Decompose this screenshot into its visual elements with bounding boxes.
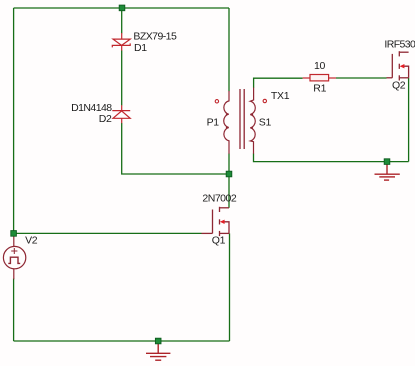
wire left rail upper	[13, 8, 15, 236]
svg-text:TX1: TX1	[271, 90, 290, 102]
svg-text:2N7002: 2N7002	[202, 193, 236, 205]
arrow head Q1	[220, 220, 225, 224]
transformer core lines	[240, 89, 244, 149]
voltage source V2	[3, 235, 25, 280]
gate bar	[212, 210, 214, 234]
svg-text:V2: V2	[25, 235, 38, 247]
transformer TX1 primary winding P1	[224, 91, 229, 154]
wire secondary bottom	[254, 154, 409, 162]
drain lead	[220, 207, 230, 209]
wire diode chain upper	[121, 8, 123, 33]
svg-text:Q2: Q2	[392, 80, 406, 92]
wire R1 to Q2 gate	[336, 77, 387, 79]
svg-text:S1: S1	[259, 116, 272, 128]
svg-text:D2: D2	[99, 113, 112, 125]
wire D2 down and right to junction	[122, 123, 229, 174]
V2 pulse waveform	[8, 257, 20, 263]
junction dot V2 / gate net	[11, 231, 17, 237]
diode D2	[112, 105, 130, 123]
middle dash	[219, 219, 221, 224]
arrow lead + body line	[404, 66, 409, 78]
bottom dash (source side)	[219, 231, 221, 236]
wire Q1 source to bottom	[229, 233, 231, 341]
wire junction to Q1 drain	[228, 154, 230, 208]
svg-text:D1: D1	[134, 42, 147, 54]
transformer secondary winding S1	[250, 88, 255, 154]
wire top horizontal	[14, 7, 229, 9]
bottom dash (source side)	[398, 75, 400, 80]
svg-text:Q1: Q1	[212, 234, 226, 246]
resistor R1	[303, 75, 336, 81]
svg-text:IRF530: IRF530	[384, 38, 415, 50]
arrow lead + body line	[224, 222, 229, 234]
gate bar	[391, 54, 393, 78]
svg-text:10: 10	[314, 60, 325, 72]
drain lead stub	[399, 51, 408, 53]
zener diode D1	[112, 33, 130, 51]
gate lead	[387, 77, 393, 79]
primary polarity dot	[215, 100, 218, 103]
wire gate net V2 to Q1	[14, 232, 202, 234]
wire secondary top to R1	[254, 78, 303, 88]
wire left rail lower	[13, 279, 15, 342]
secondary polarity dot	[263, 99, 266, 102]
ground right	[375, 163, 400, 180]
junction dot right ground	[384, 159, 390, 165]
wire between D1 and D2	[121, 50, 123, 105]
svg-text:R1: R1	[313, 83, 326, 95]
junction dot bottom ground	[155, 338, 161, 344]
source lead	[399, 77, 408, 79]
gate lead	[202, 232, 213, 234]
wire top corner down to primary	[228, 8, 230, 91]
V2 plus sign	[11, 248, 17, 254]
mosfet Q1 2N7002	[202, 207, 230, 236]
mosfet Q2 IRF530	[387, 51, 409, 80]
junction dot primary bottom	[226, 171, 232, 177]
ground bottom center	[146, 343, 170, 360]
top dash (drain side)	[398, 51, 400, 56]
svg-text:BZX79-15: BZX79-15	[133, 31, 177, 43]
arrow head Q2	[400, 64, 405, 68]
top dash (drain side)	[219, 207, 221, 212]
wire Q2 source down	[408, 78, 410, 162]
junction dot top (diode chain / top wire)	[119, 5, 125, 11]
wire bottom horizontal	[14, 340, 230, 342]
middle dash	[398, 64, 400, 69]
source lead	[220, 232, 230, 234]
svg-text:P1: P1	[207, 116, 220, 128]
